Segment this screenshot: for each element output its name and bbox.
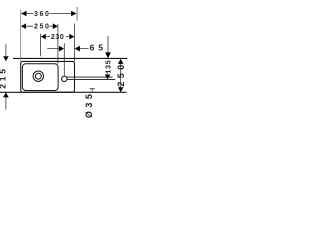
washbasin outer rect (plan view) xyxy=(21,61,75,92)
drain inner circle xyxy=(35,73,41,79)
dim line 215 tails xyxy=(5,44,7,109)
dim 250R stubs xyxy=(120,63,122,88)
svg-text:Ø35: Ø35 xyxy=(84,91,94,119)
tap hole circle xyxy=(62,76,67,81)
svg-text:65: 65 xyxy=(90,43,107,53)
svg-text:135: 135 xyxy=(106,60,113,74)
extension line left (360) xyxy=(20,10,22,62)
tap hole centerline xyxy=(68,78,116,80)
arrow 360 right xyxy=(71,11,77,17)
svg-text:230: 230 xyxy=(51,34,64,41)
extension line 250-right xyxy=(57,24,59,64)
extension line 230-left xyxy=(39,34,41,56)
svg-text:250: 250 xyxy=(116,61,126,86)
ticked stub near front line xyxy=(90,88,95,92)
arrow 250 left xyxy=(21,23,26,29)
front edge extension line xyxy=(0,91,127,93)
arrow 250R top (up at wall) xyxy=(118,59,124,64)
extension line tap center xyxy=(63,43,65,76)
dim line 65 with tails xyxy=(47,48,88,50)
basin inner rim xyxy=(22,64,58,91)
arrow 65 left (outside, pointing right) xyxy=(59,46,64,52)
arrow 250R bottom (down at front) xyxy=(118,87,124,92)
dim line 230 xyxy=(46,36,69,38)
arrow 215 bottom (up) xyxy=(3,92,9,97)
extension line right short (360) xyxy=(76,7,78,21)
drain outer circle xyxy=(33,71,43,81)
extension line 230-right above rect xyxy=(73,24,75,62)
wall line xyxy=(13,57,127,59)
svg-text:250: 250 xyxy=(34,24,50,31)
dim line 360 xyxy=(26,13,71,15)
arrow 65 right (outside, pointing left) xyxy=(75,46,80,52)
arrow 250 right xyxy=(53,23,58,29)
arrow 230 right xyxy=(69,34,74,40)
svg-text:215: 215 xyxy=(0,66,8,89)
arrow 360 left xyxy=(21,11,27,17)
arrow 215 top (down) xyxy=(3,56,9,61)
dim line 250 xyxy=(26,25,52,27)
dim line 135 tail xyxy=(107,36,109,74)
arrow 230 left xyxy=(41,34,46,40)
arrow 135 top (down at wall) xyxy=(105,52,111,58)
arrow 135 bottom (down at tap centerline) xyxy=(105,75,111,80)
tap hole upper reference line xyxy=(67,76,113,78)
svg-text:360: 360 xyxy=(34,11,50,18)
